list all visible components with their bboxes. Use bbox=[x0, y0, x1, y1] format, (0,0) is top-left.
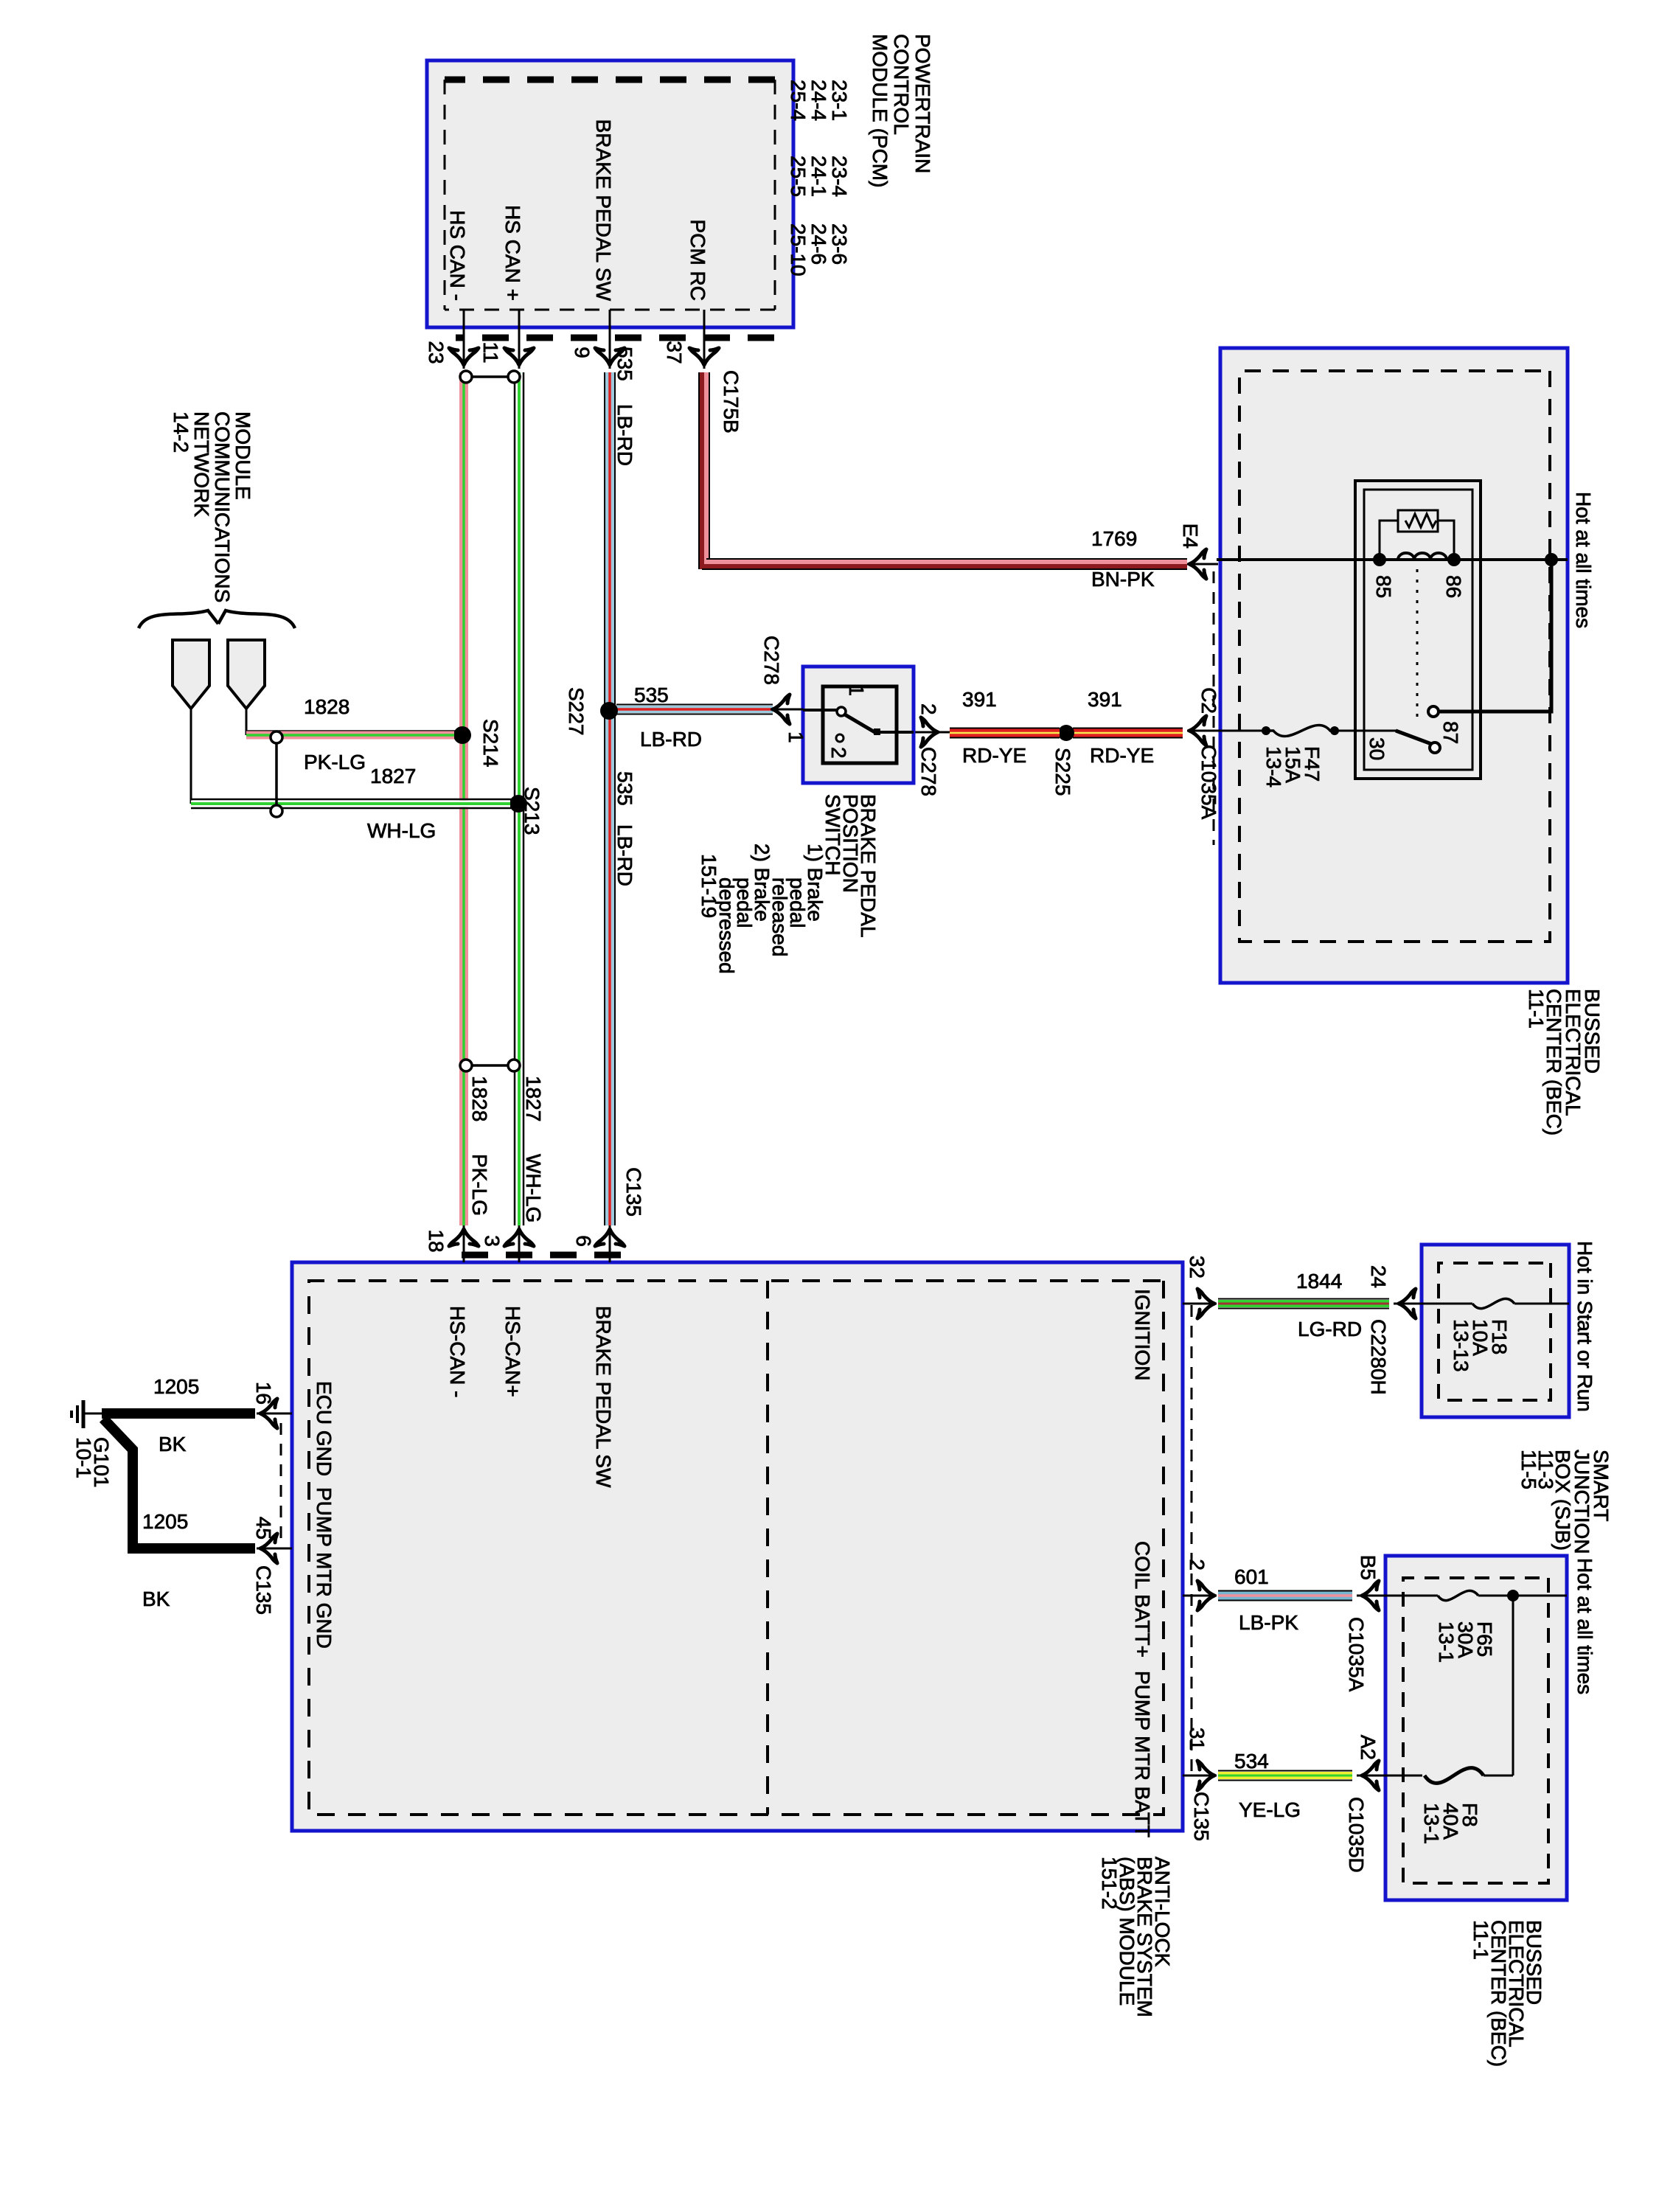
svg-text:B5: B5 bbox=[1357, 1555, 1380, 1580]
switch armature bbox=[844, 714, 876, 733]
svg-text:Hot at all times: Hot at all times bbox=[1572, 492, 1595, 628]
svg-text:535: 535 bbox=[613, 347, 636, 381]
svg-text:10-1: 10-1 bbox=[72, 1437, 95, 1478]
svg-text:1: 1 bbox=[845, 684, 868, 696]
svg-text:24-4: 24-4 bbox=[807, 80, 830, 121]
svg-text:MODULE: MODULE bbox=[232, 411, 254, 500]
wire 1827 WH-LG from network to S213 bbox=[190, 709, 192, 804]
svg-text:1205: 1205 bbox=[142, 1510, 188, 1533]
svg-text:13-13: 13-13 bbox=[1450, 1319, 1472, 1372]
svg-text:CONTROL: CONTROL bbox=[890, 34, 913, 135]
wire stub ABS pin 16 bbox=[257, 1413, 292, 1415]
module box: POWERTRAIN CONTROL MODULE (PCM) bbox=[427, 60, 793, 327]
wire 391 RD-YE from S225 to switch pin 2 bbox=[950, 728, 1060, 729]
module box: ANTI-LOCK BRAKE SYSTEM (ABS) MODULE bbox=[292, 1262, 1183, 1831]
connector arrow C2 bbox=[1189, 716, 1206, 745]
svg-text:NETWORK: NETWORK bbox=[190, 411, 213, 517]
svg-text:11-1: 11-1 bbox=[1470, 1920, 1492, 1960]
svg-text:2: 2 bbox=[827, 747, 850, 759]
svg-text:13-1: 13-1 bbox=[1435, 1621, 1458, 1663]
svg-text:30: 30 bbox=[1366, 737, 1388, 760]
module box: SMART JUNCTION BOX (SJB) bbox=[1422, 1245, 1569, 1417]
svg-text:BRAKE PEDAL SW: BRAKE PEDAL SW bbox=[592, 1306, 615, 1488]
wire 1769 BN-PK horizontal segment from PCM pin 37 bbox=[709, 372, 710, 569]
connector C135 dashed line across ABS pins bbox=[446, 1252, 621, 1259]
relay coil winding bbox=[1398, 553, 1447, 560]
svg-text:86: 86 bbox=[1442, 575, 1465, 598]
connector arrow C2280H bbox=[1399, 1289, 1416, 1318]
svg-text:IGNITION: IGNITION bbox=[1131, 1289, 1154, 1380]
dashed connector tie across ABS ground pins bbox=[280, 1423, 282, 1541]
BEC2 bus line to F8 bbox=[1512, 1596, 1514, 1775]
connector arrow at ABS pin 18 bbox=[449, 1229, 479, 1246]
relay actuation dotted line bbox=[1416, 569, 1419, 721]
wire stub ABS pin 18 bbox=[463, 1225, 465, 1262]
switch inner black box bbox=[823, 686, 897, 763]
svg-text:C135: C135 bbox=[252, 1565, 275, 1615]
BEC2 feed line 601 row bbox=[1478, 1595, 1567, 1597]
fuse F65 symbol bbox=[1438, 1590, 1478, 1600]
dashed connector tie E4 to C2 bbox=[1213, 571, 1215, 845]
switch pin 1 wire bbox=[803, 709, 841, 712]
wire HS CAN - 1828 PK-LG from PCM pin 23 to ABS pin 18 bbox=[459, 372, 468, 1225]
wire 1844 LG-RD bbox=[1218, 1298, 1389, 1300]
wire relay pin 30 to fuse F47 bbox=[1335, 730, 1398, 732]
svg-text:WH-LG: WH-LG bbox=[522, 1154, 545, 1222]
twisted pair link near ABS bbox=[466, 1064, 514, 1067]
svg-text:LB-RD: LB-RD bbox=[613, 824, 636, 886]
svg-text:9: 9 bbox=[571, 347, 594, 358]
svg-text:WH-LG: WH-LG bbox=[367, 819, 436, 842]
connector arrow at PCM pin 23 bbox=[449, 348, 479, 365]
connector arrow at ABS pin 6 bbox=[595, 1229, 625, 1246]
svg-text:23-6: 23-6 bbox=[828, 223, 851, 265]
svg-text:HS-CAN+: HS-CAN+ bbox=[501, 1306, 524, 1397]
twisted pair link near PCM bbox=[466, 375, 514, 378]
svg-text:S225: S225 bbox=[1051, 748, 1074, 796]
svg-text:BN-PK: BN-PK bbox=[1091, 568, 1155, 591]
svg-text:Hot in Start or Run: Hot in Start or Run bbox=[1573, 1241, 1596, 1412]
svg-text:151-2: 151-2 bbox=[1098, 1857, 1121, 1910]
svg-text:85: 85 bbox=[1372, 575, 1395, 598]
wire stub ABS pin 6 bbox=[609, 1225, 611, 1262]
fuse F18 symbol bbox=[1472, 1298, 1514, 1308]
resistor parallel stub wires bbox=[1380, 521, 1398, 560]
svg-text:391: 391 bbox=[962, 688, 997, 711]
connector arrow B5 bbox=[1362, 1581, 1379, 1610]
wire fuse F47 to C2 bbox=[1217, 730, 1266, 732]
svg-text:16: 16 bbox=[252, 1382, 275, 1405]
svg-text:PUMP MTR GND: PUMP MTR GND bbox=[313, 1487, 335, 1649]
svg-text:BK: BK bbox=[142, 1587, 170, 1610]
BEC2 bus junction dot bbox=[1507, 1590, 1519, 1601]
switch alternate contact circle bbox=[836, 734, 844, 742]
connector C175B dashed line across PCM pins bbox=[456, 335, 774, 341]
svg-text:LB-RD: LB-RD bbox=[613, 404, 636, 466]
svg-text:C278: C278 bbox=[760, 636, 783, 685]
wire stub ABS pin 2 bbox=[1183, 1595, 1217, 1597]
svg-text:BRAKE PEDAL SW: BRAKE PEDAL SW bbox=[592, 119, 615, 302]
svg-text:MODULE (PCM): MODULE (PCM) bbox=[869, 34, 891, 187]
svg-text:23: 23 bbox=[425, 341, 448, 364]
svg-text:C278: C278 bbox=[917, 747, 940, 796]
splice S214 on HS CAN - bbox=[453, 726, 471, 744]
relay suppression resistor box bbox=[1398, 510, 1438, 532]
relay outer box PCM POWER RELAY bbox=[1355, 481, 1481, 779]
relay resistor zigzag bbox=[1405, 514, 1436, 527]
svg-text:C1035A: C1035A bbox=[1197, 745, 1220, 820]
svg-text:C1035A: C1035A bbox=[1345, 1617, 1368, 1692]
wire fuse F8 to A2 bbox=[1357, 1775, 1422, 1777]
svg-text:535: 535 bbox=[634, 684, 669, 706]
svg-text:24-1: 24-1 bbox=[807, 156, 830, 197]
svg-text:2: 2 bbox=[1186, 1559, 1208, 1571]
svg-text:POWERTRAIN: POWERTRAIN bbox=[911, 34, 934, 173]
wire stub PCM pin 37 bbox=[703, 310, 706, 369]
svg-text:45: 45 bbox=[252, 1517, 275, 1540]
svg-text:535: 535 bbox=[613, 771, 636, 806]
wire 1828 PK-LG from network to S214 bbox=[246, 709, 248, 735]
svg-text:2: 2 bbox=[917, 703, 940, 715]
fuse F47 symbol bbox=[1266, 725, 1335, 736]
connector arrow E4 bbox=[1187, 563, 1218, 566]
dashed connector tie across ABS power pins bbox=[1191, 1305, 1193, 1775]
svg-text:RD-YE: RD-YE bbox=[1090, 744, 1154, 767]
wire fuse F18 to C2280H bbox=[1394, 1303, 1472, 1305]
connector arrow at ABS pin 32 bbox=[1197, 1289, 1214, 1318]
wire 535 LB-RD branch from S227 to switch pin 1 bbox=[616, 704, 773, 706]
wire stub ABS pin 3 bbox=[518, 1225, 521, 1262]
wire fuse F65 to B5 bbox=[1357, 1595, 1438, 1597]
ground symbol G101 bbox=[85, 1413, 102, 1415]
ground wire 1205 BK from pin 16 bbox=[102, 1408, 255, 1419]
ABS internal dashed divider bbox=[766, 1281, 769, 1815]
switch pin 1 terminal circle bbox=[837, 707, 846, 716]
svg-text:1828: 1828 bbox=[304, 695, 349, 718]
svg-text:RD-YE: RD-YE bbox=[962, 744, 1026, 767]
connector arrow at ABS pin 2 bbox=[1197, 1581, 1214, 1610]
relay coil terminal dot 85 bbox=[1373, 553, 1386, 566]
svg-text:11-5: 11-5 bbox=[1517, 1450, 1540, 1489]
svg-text:HS-CAN -: HS-CAN - bbox=[446, 1306, 469, 1397]
svg-text:14-2: 14-2 bbox=[170, 411, 192, 453]
svg-text:6: 6 bbox=[572, 1235, 595, 1247]
svg-text:11-1: 11-1 bbox=[1525, 989, 1548, 1029]
connector arrow at ABS pin 31 bbox=[1197, 1761, 1214, 1790]
network brace decoration bbox=[139, 611, 295, 628]
svg-text:13-1: 13-1 bbox=[1420, 1803, 1443, 1844]
wire HS CAN + 1827 WH-LG from PCM pin 11 to ABS pin 3 bbox=[523, 372, 525, 1225]
svg-text:25-5: 25-5 bbox=[787, 156, 810, 197]
svg-text:BK: BK bbox=[159, 1433, 187, 1455]
svg-text:1844: 1844 bbox=[1296, 1270, 1342, 1293]
module box: BUSSED ELECTRICAL CENTER (BEC) with PCM POWER RELAY bbox=[1220, 348, 1568, 983]
svg-text:24-6: 24-6 bbox=[807, 223, 830, 265]
svg-text:COIL BATT+: COIL BATT+ bbox=[1131, 1541, 1154, 1658]
svg-text:601: 601 bbox=[1234, 1565, 1269, 1588]
wire stub PCM pin 11 bbox=[518, 310, 521, 369]
svg-text:C135: C135 bbox=[622, 1167, 645, 1217]
svg-text:LB-PK: LB-PK bbox=[1239, 1611, 1298, 1634]
junction dot on feed line bbox=[1545, 553, 1558, 566]
svg-text:25-10: 25-10 bbox=[787, 223, 810, 276]
connector arrow at ABS pin 16 bbox=[260, 1399, 277, 1428]
connector arrow A2 bbox=[1362, 1761, 1379, 1790]
svg-text:LG-RD: LG-RD bbox=[1298, 1318, 1362, 1340]
wire 534 YE-LG bbox=[1218, 1770, 1352, 1772]
svg-text:1827: 1827 bbox=[522, 1076, 545, 1121]
wire stub ABS pin 32 bbox=[1183, 1303, 1217, 1305]
svg-text:PK-LG: PK-LG bbox=[304, 751, 366, 773]
svg-text:13-4: 13-4 bbox=[1262, 746, 1285, 787]
connector arrow at PCM pin 37 bbox=[689, 348, 719, 365]
ABS inner dashed boundary bbox=[309, 1281, 1164, 1815]
connector arrow at switch pin 2 bbox=[921, 717, 938, 747]
svg-text:37: 37 bbox=[663, 341, 686, 364]
svg-text:E4: E4 bbox=[1179, 524, 1202, 549]
svg-text:151-19: 151-19 bbox=[698, 854, 720, 918]
twisted pair link at network wires bbox=[275, 737, 278, 811]
svg-text:C175B: C175B bbox=[720, 370, 742, 434]
splice S213 on HS CAN + bbox=[509, 795, 527, 813]
wire 1769 BN-PK vertical segment to E4 bbox=[706, 558, 1187, 560]
svg-text:HS CAN -: HS CAN - bbox=[446, 210, 469, 301]
svg-text:A2: A2 bbox=[1357, 1735, 1380, 1760]
svg-text:1828: 1828 bbox=[468, 1076, 491, 1121]
wire 391 RD-YE from C2 to S225 bbox=[1073, 728, 1183, 729]
relay contact terminal 87 circle bbox=[1428, 706, 1439, 717]
svg-text:87: 87 bbox=[1439, 721, 1462, 744]
wire 535 LB-RD from PCM pin 9 to ABS pin 6 bbox=[614, 372, 616, 1225]
svg-text:S213: S213 bbox=[521, 787, 543, 835]
wire stub PCM pin 9 bbox=[609, 310, 611, 369]
SJB inner dashed boundary bbox=[1439, 1263, 1551, 1400]
connector arrow at ABS pin 3 bbox=[504, 1229, 534, 1246]
svg-text:25-4: 25-4 bbox=[787, 80, 810, 121]
svg-text:31: 31 bbox=[1186, 1728, 1208, 1750]
power feed line from Hot at all times bbox=[1217, 558, 1568, 561]
svg-text:C2: C2 bbox=[1197, 687, 1220, 714]
svg-text:11: 11 bbox=[479, 341, 502, 363]
svg-text:18: 18 bbox=[425, 1229, 448, 1252]
connector arrow at PCM pin 11 bbox=[504, 348, 534, 365]
svg-text:24: 24 bbox=[1367, 1265, 1390, 1288]
connector arrow at ABS pin 45 bbox=[260, 1534, 277, 1563]
module box: BRAKE PEDAL POSITION SWITCH bbox=[803, 667, 914, 783]
svg-text:23-4: 23-4 bbox=[828, 156, 851, 197]
module box: BUSSED ELECTRICAL CENTER (BEC) lower bbox=[1385, 1556, 1567, 1900]
svg-text:ECU GND: ECU GND bbox=[313, 1381, 335, 1476]
wire 601 LB-PK bbox=[1218, 1590, 1352, 1592]
network connector pentagon lower bbox=[173, 640, 209, 709]
wire from feed to relay contact 87 bbox=[1439, 560, 1551, 712]
svg-text:PCM RC: PCM RC bbox=[686, 220, 709, 301]
SJB feed line bbox=[1514, 1303, 1569, 1305]
network connector pentagon upper bbox=[228, 640, 265, 709]
svg-text:1769: 1769 bbox=[1091, 527, 1137, 550]
svg-text:Hot at all times: Hot at all times bbox=[1573, 1558, 1596, 1694]
svg-text:PUMP MTR BATT: PUMP MTR BATT bbox=[1131, 1671, 1154, 1837]
svg-text:1827: 1827 bbox=[370, 765, 416, 787]
relay armature from pin 30 bbox=[1396, 731, 1433, 745]
splice S227 bbox=[600, 702, 618, 720]
svg-text:391: 391 bbox=[1088, 688, 1122, 711]
svg-text:C1035D: C1035D bbox=[1345, 1797, 1368, 1873]
relay coil terminal dot 86 bbox=[1447, 553, 1461, 566]
svg-text:1205: 1205 bbox=[153, 1375, 199, 1398]
connector arrow at switch pin 1 bbox=[773, 695, 790, 724]
BEC1 inner dashed boundary bbox=[1239, 371, 1550, 942]
svg-text:3: 3 bbox=[481, 1235, 504, 1247]
svg-text:1: 1 bbox=[785, 731, 807, 743]
relay inner box bbox=[1364, 490, 1472, 770]
svg-text:S214: S214 bbox=[479, 719, 502, 767]
svg-text:S227: S227 bbox=[565, 687, 588, 735]
svg-text:PK-LG: PK-LG bbox=[468, 1154, 491, 1216]
svg-text:534: 534 bbox=[1234, 1750, 1269, 1773]
fuse F47 end dots bbox=[1330, 726, 1339, 735]
fuse F8 symbol bbox=[1425, 1768, 1484, 1784]
wire stub PCM pin 23 bbox=[463, 310, 465, 369]
PCM inner dashed boundary bbox=[445, 77, 775, 83]
svg-text:C135: C135 bbox=[1190, 1792, 1213, 1841]
svg-text:C2280H: C2280H bbox=[1367, 1319, 1390, 1395]
wire stub ABS pin 31 bbox=[1183, 1775, 1217, 1777]
svg-text:HS CAN +: HS CAN + bbox=[501, 205, 524, 301]
svg-text:YE-LG: YE-LG bbox=[1239, 1798, 1301, 1821]
svg-text:32: 32 bbox=[1186, 1256, 1208, 1279]
splice S225 bbox=[1058, 725, 1074, 741]
switch pin 2 line bbox=[877, 731, 914, 734]
BEC2 inner dashed boundary bbox=[1403, 1578, 1548, 1883]
wire stub ABS pin 45 bbox=[257, 1548, 292, 1550]
connector arrow at PCM pin 9 bbox=[595, 348, 625, 365]
svg-text:COMMUNICATIONS: COMMUNICATIONS bbox=[211, 411, 234, 602]
ground wire 1205 BK from pin 45 bbox=[103, 1419, 255, 1548]
svg-text:23-1: 23-1 bbox=[828, 80, 851, 121]
svg-text:LB-RD: LB-RD bbox=[640, 728, 702, 751]
